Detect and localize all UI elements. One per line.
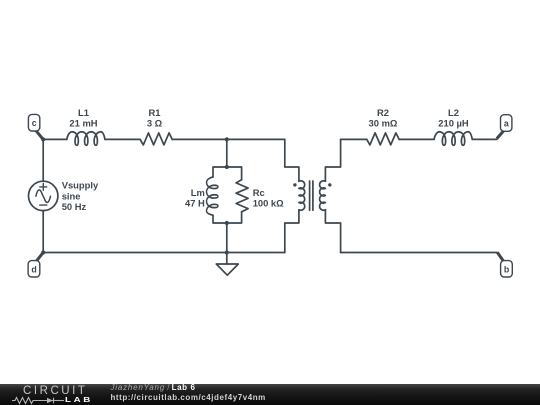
CircuitLab logo CIRCUIT [23,386,88,396]
resistor R1 [140,133,172,145]
footer bar [0,384,540,405]
transformer primary phase dot [293,183,296,186]
node d junction [41,250,45,254]
junction dots [41,137,331,254]
svg-text:Lm: Lm [191,187,205,198]
transformer secondary phase dot [328,183,331,186]
svg-text:30 mΩ: 30 mΩ [369,117,398,128]
svg-text:Rc: Rc [253,187,265,198]
node a box [501,115,512,132]
svg-text:a: a [504,118,509,128]
svg-text:50 Hz: 50 Hz [62,201,87,212]
voltage source Vsupply circle [29,181,58,210]
voltage source sine symbol [36,190,51,203]
ground stub [226,253,228,264]
node b pointer [497,252,503,261]
junction top of riser [225,137,229,141]
node c box [28,114,39,131]
svg-text:210 µH: 210 µH [438,117,469,128]
CircuitLab logo LAB [65,396,93,403]
svg-text:b: b [504,264,510,274]
wire transformer to R2 [341,138,367,140]
ground symbol [216,264,238,275]
svg-text:Vsupply: Vsupply [62,180,99,191]
resistor R2 [367,133,399,145]
node a pointer [497,131,504,139]
transformer primary top lead [285,139,299,181]
wire L1 to R1 [105,138,140,140]
transformer secondary bottom lead [325,210,340,253]
wire riser to parallel block [226,139,228,167]
resistor Rc [236,180,248,212]
inductor L1 [67,132,105,146]
svg-text:L1: L1 [78,107,89,118]
junction parallel bottom bar [225,221,229,225]
node b box [501,261,513,277]
voltage source minus sign [40,204,47,206]
node d box [28,261,40,277]
wire L2 to node a [472,138,497,140]
footer title line [111,383,266,404]
svg-text:R2: R2 [377,107,389,118]
svg-text:3 Ω: 3 Ω [147,117,163,128]
transformer primary bottom lead [285,210,299,253]
svg-text:L2: L2 [448,107,459,118]
transformer secondary top lead [325,139,340,181]
wire below Vsupply [42,211,44,253]
svg-text:c: c [32,118,37,128]
wire parallel block bottom bar [213,212,242,223]
svg-text:21 mH: 21 mH [69,117,97,128]
svg-text:d: d [31,264,36,274]
junction ground [225,250,229,254]
wire R1 to transformer primary [172,138,285,140]
junction parallel top bar [225,165,229,169]
svg-text:100 kΩ: 100 kΩ [253,198,284,209]
CircuitLab logo squiggle [10,396,70,405]
transformer secondary winding [320,181,326,210]
transformer primary winding [299,181,305,210]
node terminal flags [28,114,512,277]
transformer core [310,181,313,210]
wire bottom left [43,252,285,254]
wire R2 to L2 [399,138,434,140]
svg-text:sine: sine [62,190,81,201]
inductor L2 [434,132,472,146]
svg-text:47 H: 47 H [185,198,205,209]
svg-text:R1: R1 [149,107,161,118]
wire top left (node c to L1) [43,138,67,140]
wire bottom right [341,252,497,254]
voltage source plus sign [40,183,47,190]
wire left vertical above Vsupply [42,139,44,181]
node d pointer [36,253,43,262]
wire parallel block to ground [226,223,228,253]
inductor Lm [206,177,217,215]
node c pointer [36,131,43,140]
node c junction [41,137,45,141]
wire parallel block top bar [213,167,242,180]
